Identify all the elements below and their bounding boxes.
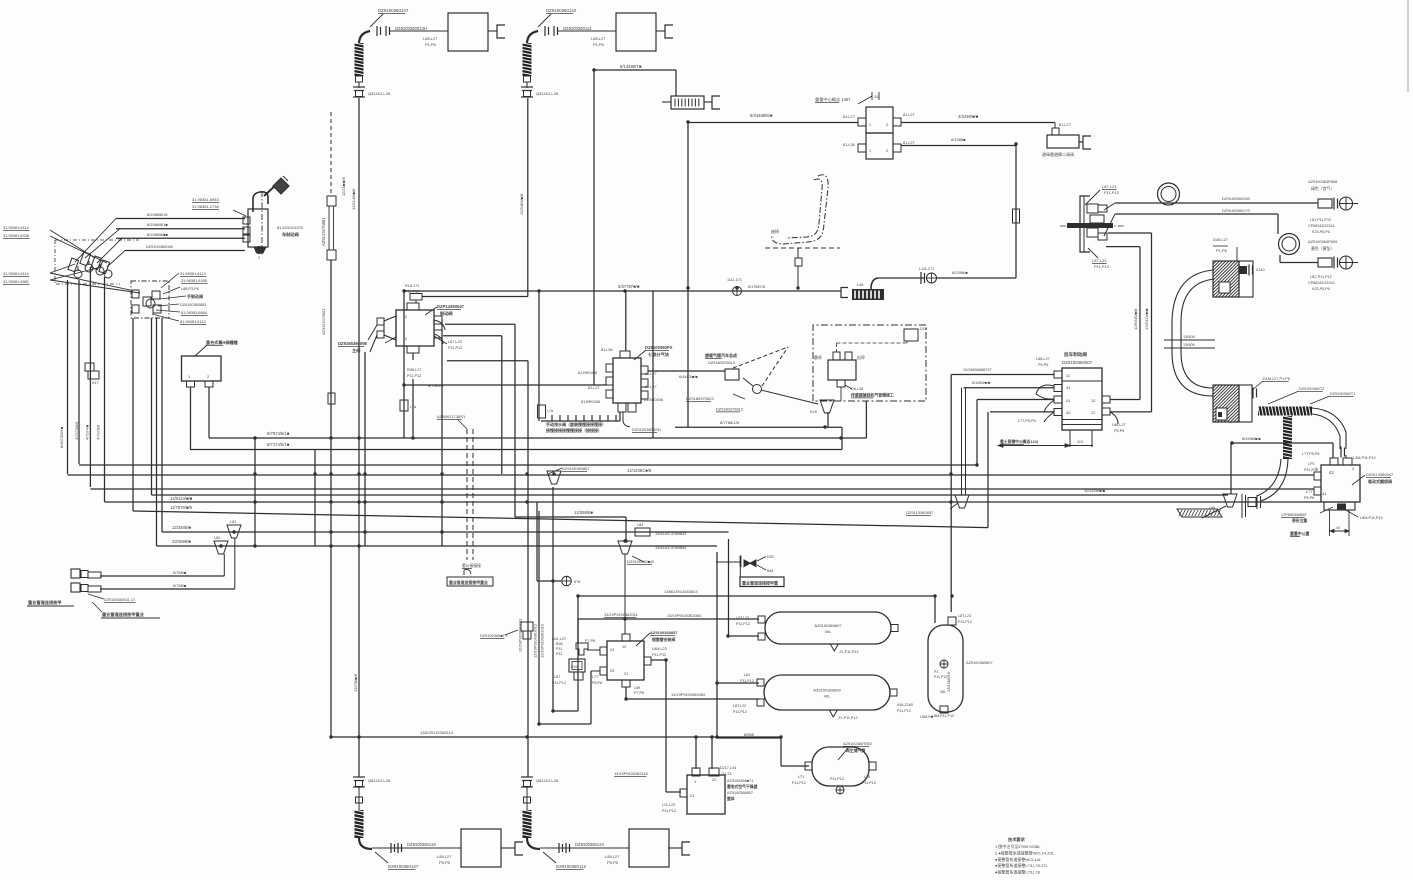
svg-text:40L: 40L (825, 629, 832, 634)
svg-text:81,98383,6884: 81,98383,6884 (181, 310, 208, 315)
svg-text:DZ9100360■TY: DZ9100360■TY (480, 633, 508, 638)
svg-text:23: 23 (610, 668, 614, 673)
svg-text:AZ9100368857: AZ9100368857 (650, 630, 678, 635)
svg-text:26L: 26L (940, 690, 946, 694)
svg-text:感载气爆汽车总成: 感载气爆汽车总成 (705, 352, 737, 358)
svg-text:DZ9100360112: DZ9100360112 (556, 864, 587, 869)
svg-text:L87: L87 (554, 675, 560, 679)
svg-text:4/7378/8: 4/7378/8 (96, 425, 101, 440)
svg-text:2: 2 (405, 315, 407, 319)
svg-text:13/BDZ914343813: 13/BDZ914343813 (664, 589, 698, 594)
svg-text:L8C,P11,P12: L8C,P11,P12 (1310, 275, 1332, 279)
svg-text:Z1,Z1: Z1,Z1 (722, 772, 732, 776)
svg-text:DZ9180370813: DZ9180370813 (716, 407, 743, 412)
svg-text:制动阀: 制动阀 (440, 310, 453, 317)
svg-text:Z140: Z140 (1256, 268, 1265, 272)
svg-text:81,BR0408: 81,BR0408 (578, 371, 597, 375)
svg-text:L7a: L7a (410, 405, 416, 409)
svg-text:重公接接接: 重公接接接 (462, 563, 481, 568)
svg-text:31,98381,6113: 31,98381,6113 (180, 271, 206, 276)
svg-text:CP88342GZ244: CP88342GZ244 (1308, 224, 1335, 228)
svg-text:P7,P8: P7,P8 (634, 691, 644, 695)
svg-text:D1M,L27,P1,P6: D1M,L27,P1,P6 (1263, 377, 1290, 381)
svg-text:俄雷雷安装阀: 俄雷雷安装阀 (651, 637, 675, 642)
svg-text:31,98381,6983: 31,98381,6983 (192, 197, 219, 202)
svg-text:旁形注重: 旁形注重 (1291, 518, 1307, 523)
svg-text:P5,P6: P5,P6 (592, 681, 602, 685)
svg-text:再生储气筒: 再生储气筒 (846, 748, 866, 753)
svg-text:L87,L23: L87,L23 (1102, 184, 1117, 189)
svg-text:12/19P9100362011: 12/19P9100362011 (518, 618, 523, 652)
svg-text:22: 22 (712, 777, 717, 782)
svg-text:L8T,L23: L8T,L23 (736, 616, 749, 620)
svg-text:●接整管系道接整WCL14L: ●接整管系道接整WCL14L (995, 856, 1042, 862)
svg-text:Q81412,L28: Q81412,L28 (368, 778, 391, 783)
svg-text:11/8123/■/■: 11/8123/■/■ (170, 496, 193, 501)
svg-text:AZ9100368■T1: AZ9100368■T1 (727, 779, 753, 783)
svg-text:AZ9100364P609: AZ9100364P609 (1308, 239, 1337, 244)
svg-text:12/6345/■/8: 12/6345/■/8 (1133, 308, 1138, 330)
svg-text:DZ9113360047: DZ9113360047 (1366, 472, 1394, 477)
svg-text:P11,P12: P11,P12 (1104, 190, 1120, 195)
svg-text:重合式幕H阀幢幢: 重合式幕H阀幢幢 (206, 339, 239, 345)
svg-text:重业管道连接按甲重: 重业管道连接按甲重 (742, 580, 778, 586)
svg-text:DZ9180370613: DZ9180370613 (708, 360, 735, 365)
svg-text:座椅: 座椅 (771, 228, 779, 234)
svg-text:P11,P12: P11,P12 (652, 653, 666, 657)
svg-text:DZ9100360158: DZ9100360158 (1222, 196, 1250, 201)
svg-text:AZ9123470881: AZ9123470881 (321, 308, 326, 335)
svg-text:D18: D18 (920, 327, 927, 331)
svg-text:L8M,L23: L8M,L23 (652, 647, 667, 651)
svg-text:1: 1 (869, 123, 871, 127)
svg-text:21: 21 (690, 793, 695, 798)
svg-text:P1,P6: P1,P6 (593, 42, 605, 47)
svg-text:●接整管系道接整L73,L78: ●接整管系道接整L73,L78 (995, 869, 1041, 875)
svg-text:P1: P1 (934, 670, 938, 674)
svg-text:41: 41 (1066, 398, 1071, 403)
svg-text:重土管撞中公概志123(: 重土管撞中公概志123( (1000, 439, 1039, 444)
svg-text:31,98381,6345: 31,98381,6345 (181, 278, 207, 283)
svg-text:2: 2 (886, 123, 888, 127)
svg-text:13/19P9100362118: 13/19P9100362118 (614, 771, 648, 776)
svg-text:12/1689668874T: 12/1689668874T (963, 368, 992, 372)
svg-text:DZ9100360■/8: DZ9100360■/8 (627, 559, 654, 564)
svg-text:重业管道连接按甲重业: 重业管道连接按甲重业 (102, 611, 145, 618)
svg-text:DZ9100360179: DZ9100360179 (1222, 208, 1250, 213)
svg-text:L46: L46 (857, 283, 863, 287)
svg-text:DZ9100360124: DZ9100360124 (575, 842, 605, 847)
svg-text:DZ9100360147: DZ9100360147 (378, 8, 409, 13)
svg-text:黄色（黄坠）: 黄色（黄坠） (1311, 246, 1334, 251)
svg-text:31,98381,6114: 31,98381,6114 (3, 271, 30, 276)
svg-text:P11,P12: P11,P12 (830, 777, 844, 781)
svg-text:DZ91003603SH: DZ91003603SH (632, 427, 661, 432)
svg-text:桑停: 桑停 (814, 355, 822, 360)
svg-text:DZ9165360098: DZ9165360098 (338, 341, 368, 346)
svg-text:P11,P12: P11,P12 (862, 781, 876, 785)
svg-text:D217,L44: D217,L44 (720, 766, 736, 770)
svg-text:AZ9100364P608: AZ9100364P608 (1308, 179, 1337, 184)
svg-text:DZ9100360PX: DZ9100360PX (645, 345, 673, 350)
svg-text:K17: K17 (92, 381, 99, 385)
svg-text:DZ9100360134: DZ9100360134 (407, 842, 437, 847)
svg-text:6/788/■: 6/788/■ (173, 583, 187, 588)
svg-text:P11,P12: P11,P12 (733, 710, 747, 714)
svg-text:P7,P8: P7,P8 (585, 639, 595, 643)
svg-text:31,98381,6338: 31,98381,6338 (3, 233, 29, 238)
svg-text:1: 1 (869, 149, 871, 153)
svg-text:K84,Z160: K84,Z160 (897, 703, 913, 707)
svg-text:P11,P12: P11,P12 (662, 809, 676, 813)
svg-text:D19: D19 (571, 665, 577, 669)
svg-text:L88,L27: L88,L27 (605, 854, 620, 859)
svg-text:绿色（宫气）: 绿色（宫气） (1311, 186, 1334, 191)
svg-text:42: 42 (1066, 410, 1071, 415)
svg-text:L89: L89 (634, 686, 640, 690)
svg-text:重业管道连接按甲重业: 重业管道连接按甲重业 (449, 580, 488, 585)
svg-text:L7T,P5,P6: L7T,P5,P6 (1302, 452, 1320, 456)
svg-text:21: 21 (624, 671, 628, 676)
svg-text:L3M,P11,P12: L3M,P11,P12 (1353, 456, 1376, 460)
svg-text:Q81412,L28: Q81412,L28 (536, 91, 559, 96)
svg-text:6/2398/■: 6/2398/■ (952, 270, 968, 275)
svg-text:P11,P12: P11,P12 (792, 781, 806, 785)
svg-text:13/DZ9110362014: 13/DZ9110362014 (420, 730, 454, 735)
svg-text:12/3488/■: 12/3488/■ (172, 525, 191, 530)
svg-text:40L: 40L (824, 694, 831, 699)
svg-text:17P88035888T: 17P88035888T (1281, 513, 1308, 517)
svg-text:L88,L27: L88,L27 (1112, 423, 1126, 427)
svg-text:L81: L81 (744, 673, 750, 677)
svg-text:整体: 整体 (726, 796, 735, 801)
svg-text:41: 41 (1322, 491, 1327, 496)
svg-text:L81: L81 (230, 520, 236, 524)
svg-text:DZ9113360857: DZ9113360857 (906, 510, 934, 515)
svg-text:8/1988/8/■■: 8/1988/8/■■ (147, 232, 169, 237)
svg-text:P11,P12: P11,P12 (552, 681, 566, 685)
svg-text:81,L27: 81,L27 (843, 115, 855, 119)
svg-text:L77,P5,P6: L77,P5,P6 (1018, 419, 1036, 423)
svg-text:13/19P9100362084: 13/19P9100362084 (671, 692, 706, 697)
svg-text:DZ9100360007: DZ9100360007 (1062, 360, 1093, 365)
svg-text:P11,P12: P11,P12 (740, 679, 754, 683)
svg-text:L88,L27: L88,L27 (437, 854, 452, 859)
svg-text:6/34488/8/■: 6/34488/8/■ (750, 113, 773, 118)
svg-text:DZ9100360857: DZ9100360857 (562, 466, 590, 471)
svg-text:D48,L27: D48,L27 (1213, 237, 1229, 242)
svg-text:43/2988/■: 43/2988/■ (172, 539, 191, 544)
svg-text:传感器输钱机气管慢接工: 传感器输钱机气管慢接工 (850, 393, 894, 398)
svg-text:DZ9100360883: DZ9100360883 (180, 303, 206, 307)
svg-text:L88,L27: L88,L27 (591, 36, 606, 41)
svg-text:L88,P3,P6: L88,P3,P6 (181, 287, 199, 291)
svg-text:L8M,P■: L8M,P■ (920, 715, 933, 719)
svg-text:Q81412,L28: Q81412,L28 (368, 91, 391, 96)
svg-text:差动式翻袋阀: 差动式翻袋阀 (1368, 478, 1392, 484)
svg-text:P11,P12: P11,P12 (1304, 468, 1318, 472)
svg-text:避阀悬避障二阀阀: 避阀悬避障二阀阀 (1042, 151, 1074, 157)
svg-text:K23,P5,P6: K23,P5,P6 (1312, 287, 1330, 291)
svg-text:Z1,P11,P12: Z1,P11,P12 (838, 716, 857, 720)
svg-text:L7a: L7a (547, 409, 553, 413)
svg-text:2: 2 (886, 149, 888, 153)
svg-text:LP1: LP1 (1308, 462, 1315, 466)
svg-text:P5,P6: P5,P6 (1304, 496, 1314, 500)
svg-text:P11,P12: P11,P12 (934, 675, 947, 679)
svg-text:L88,L27: L88,L27 (423, 36, 438, 41)
svg-text:2: 2 (258, 256, 260, 260)
svg-text:P11,P12: P11,P12 (958, 620, 972, 624)
svg-text:R38,L27: R38,L27 (407, 368, 421, 372)
svg-text:手制动阀: 手制动阀 (187, 293, 203, 299)
svg-text:P11,P12: P11,P12 (897, 709, 911, 713)
svg-text:31,98381,2738: 31,98381,2738 (192, 204, 219, 209)
svg-text:81,98381,6113: 81,98381,6113 (180, 319, 206, 324)
svg-text:31,98381,6881: 31,98381,6881 (3, 279, 29, 284)
svg-text:L77: L77 (1306, 490, 1312, 494)
svg-text:D63: D63 (767, 555, 774, 559)
svg-text:AZ9100369807: AZ9100369807 (966, 660, 993, 665)
svg-text:1,图中注号见ZTB9 9238L: 1,图中注号见ZTB9 9238L (995, 843, 1041, 849)
svg-text:12/2986/■: 12/2986/■ (574, 510, 593, 515)
svg-text:L88,L27: L88,L27 (1036, 357, 1050, 361)
svg-text:31,98381,6114: 31,98381,6114 (3, 225, 30, 230)
svg-text:P12: P12 (556, 652, 563, 656)
svg-text:81,L27: 81,L27 (645, 372, 657, 376)
svg-text:K18: K18 (810, 410, 817, 414)
svg-text:13/19P9100362011: 13/19P9100362011 (604, 612, 638, 617)
svg-text:42: 42 (1329, 470, 1334, 475)
svg-text:12/6413/■/■: 12/6413/■/■ (1144, 308, 1149, 330)
svg-text:13/908: 13/908 (1183, 335, 1195, 339)
svg-text:CP88342GZ244: CP88342GZ244 (1308, 281, 1335, 285)
svg-text:81,L56: 81,L56 (601, 348, 613, 352)
svg-text:接慢接接接慢慢接接（接接接）: 接慢接接接慢慢接接（接接接） (546, 427, 602, 433)
svg-text:12: 12 (622, 644, 626, 649)
svg-text:DZ9100360114: DZ9100360114 (563, 26, 592, 31)
svg-text:81,L27: 81,L27 (645, 385, 657, 389)
svg-text:L78: L78 (864, 775, 870, 779)
svg-text:L71: L71 (798, 775, 804, 779)
svg-text:L8M,P11,P12: L8M,P11,P12 (1360, 516, 1383, 520)
svg-text:1: 1 (188, 375, 190, 379)
svg-text:2: 2 (207, 375, 209, 379)
svg-text:重业管道连接按甲: 重业管道连接按甲 (28, 599, 62, 606)
svg-text:2,●接整管系道接整管WCL14,Z3L: 2,●接整管系道接整管WCL14,Z3L (995, 849, 1055, 855)
svg-text:6/37787■/■: 6/37787■/■ (618, 284, 640, 289)
svg-text:8/4973/8/1■: 8/4973/8/1■ (59, 426, 64, 448)
svg-text:P11,P12: P11,P12 (448, 346, 462, 350)
svg-text:挂车制动阀: 挂车制动阀 (1064, 351, 1087, 358)
svg-text:8/1988/8/18: 8/1988/8/18 (147, 212, 168, 217)
svg-text:DZ9100360142: DZ9100360142 (546, 8, 577, 13)
svg-text:P5,P6: P5,P6 (607, 860, 619, 865)
svg-text:L111,171: L111,171 (919, 267, 934, 271)
svg-text:6/7174/5/1■: 6/7174/5/1■ (267, 442, 290, 447)
svg-text:L11,L23: L11,L23 (662, 803, 675, 807)
svg-text:Z1,P11,P12: Z1,P11,P12 (839, 650, 858, 654)
svg-text:AZ9123470881: AZ9123470881 (321, 217, 326, 246)
svg-text:L82: L82 (214, 536, 220, 540)
svg-text:8/1988/■/■: 8/1988/■/■ (1242, 436, 1261, 441)
svg-text:L81,P11,P12: L81,P11,P12 (1310, 218, 1331, 222)
svg-text:AZ9100369807: AZ9100369807 (814, 623, 842, 628)
svg-text:重量中心概念 1487: 重量中心概念 1487 (815, 96, 851, 103)
svg-text:P5,P6: P5,P6 (439, 860, 451, 865)
svg-text:P11: P11 (556, 647, 562, 651)
svg-text:4/7374/■: 4/7374/■ (85, 424, 90, 440)
svg-text:D41,L27: D41,L27 (552, 637, 566, 641)
svg-text:P11,P12: P11,P12 (736, 622, 750, 626)
svg-text:P11,P12: P11,P12 (1094, 264, 1110, 269)
svg-text:P5,P6: P5,P6 (1038, 363, 1048, 367)
svg-text:L84: L84 (637, 523, 643, 527)
svg-text:12/2148/■/8: 12/2148/■/8 (351, 188, 356, 210)
svg-text:6/4483/■/■: 6/4483/■/■ (679, 374, 698, 379)
svg-text:12/1238C■/8: 12/1238C■/8 (627, 468, 652, 473)
svg-text:81,L27: 81,L27 (903, 113, 915, 117)
svg-text:8/7788/1/8: 8/7788/1/8 (720, 420, 740, 425)
svg-text:AZ9B021738S1: AZ9B021738S1 (437, 414, 466, 419)
svg-text:L8M,P11,P12: L8M,P11,P12 (932, 714, 954, 718)
svg-text:D6,L38: D6,L38 (851, 387, 863, 391)
svg-text:113: 113 (1077, 440, 1083, 444)
svg-text:P5,P6: P5,P6 (1114, 429, 1124, 433)
svg-text:81,BR0408: 81,BR0408 (644, 398, 663, 402)
svg-text:DZ9100360/T2: DZ9100360/T2 (1299, 387, 1324, 391)
svg-text:手动排水阀（旋装慢慢接接慢接）: 手动排水阀（旋装慢慢接接慢接） (546, 421, 606, 427)
svg-text:22: 22 (1091, 410, 1096, 415)
svg-text:DZ9100360011,17,: DZ9100360011,17, (104, 598, 136, 602)
svg-text:8/14488/T■: 8/14488/T■ (620, 64, 642, 69)
svg-text:6/788/■: 6/788/■ (173, 570, 187, 575)
svg-text:技术要求: 技术要求 (1008, 836, 1026, 843)
svg-text:13/4143-3788894: 13/4143-3788894 (655, 545, 687, 550)
svg-text:Q81412,L28: Q81412,L28 (536, 778, 559, 783)
svg-text:P11,P12: P11,P12 (407, 374, 421, 378)
svg-text:v3: v3 (1336, 526, 1340, 530)
svg-text:4/3438/■/■: 4/3438/■/■ (958, 114, 979, 119)
svg-text:R18 171: R18 171 (405, 284, 419, 288)
svg-text:L77: L77 (592, 675, 598, 679)
svg-text:DZP14360047: DZP14360047 (437, 304, 465, 309)
svg-text:L8T,L22: L8T,L22 (733, 704, 746, 708)
svg-text:B48: B48 (767, 569, 773, 573)
svg-text:81,L27: 81,L27 (1059, 123, 1071, 127)
svg-text:DZ9100360013H: DZ9100360013H (395, 26, 427, 31)
svg-text:81,L27: 81,L27 (588, 386, 600, 390)
svg-text:6/1988■: 6/1988■ (951, 137, 966, 142)
svg-text:L87,L23: L87,L23 (448, 340, 462, 344)
svg-text:蓄电式空气干燥器: 蓄电式空气干燥器 (727, 784, 758, 789)
svg-text:11/1628/■/■: 11/1628/■/■ (1084, 488, 1106, 493)
svg-text:主阀: 主阀 (352, 347, 360, 354)
svg-text:DZ9180370623: DZ9180370623 (686, 396, 714, 401)
svg-text:AZ9100369899: AZ9100369899 (813, 688, 841, 693)
svg-text:B38: B38 (556, 642, 563, 646)
svg-text:DZ9100360147: DZ9100360147 (388, 864, 419, 869)
svg-text:1111,171: 1111,171 (727, 278, 742, 282)
svg-text:13/19P9100362084: 13/19P9100362084 (667, 613, 702, 618)
svg-text:8/1988/8/1■: 8/1988/8/1■ (147, 222, 168, 227)
svg-text:L87,L23: L87,L23 (1092, 258, 1107, 263)
svg-text:678: 678 (574, 580, 580, 584)
svg-text:81,BR0408: 81,BR0408 (581, 400, 600, 404)
svg-text:6/17887/8: 6/17887/8 (748, 285, 765, 289)
svg-text:L8T,L23: L8T,L23 (958, 614, 971, 618)
svg-text:13/4143-3788833: 13/4143-3788833 (655, 531, 687, 536)
svg-text:81,L38: 81,L38 (843, 143, 855, 147)
svg-text:车制动阀: 车制动阀 (282, 231, 299, 238)
svg-text:12/19P9100362013: 12/19P9100362013 (540, 624, 545, 658)
svg-text:K23,P5,P6: K23,P5,P6 (1312, 230, 1330, 234)
svg-text:DZ9100360049: DZ9100360049 (146, 244, 173, 249)
svg-text:41: 41 (1066, 385, 1071, 390)
svg-text:8/1983/■/■: 8/1983/■/■ (972, 381, 991, 385)
svg-text:AZ9100368T802: AZ9100368T802 (843, 741, 872, 746)
svg-text:P1,P6: P1,P6 (1216, 248, 1228, 253)
svg-text:81,52315,6376: 81,52315,6376 (277, 225, 303, 230)
svg-text:3: 3 (405, 337, 407, 341)
svg-text:12/3483/■/8: 12/3483/■/8 (519, 193, 524, 215)
svg-text:13/7/8/■/8: 13/7/8/■/8 (353, 673, 358, 692)
svg-text:P1,P6: P1,P6 (425, 42, 437, 47)
svg-text:AZ9100368857: AZ9100368857 (727, 791, 753, 795)
svg-text:13/908: 13/908 (1183, 343, 1195, 347)
svg-text:81,L27: 81,L27 (903, 141, 915, 145)
svg-text:松停: 松停 (857, 355, 865, 360)
svg-text:6/7974/5/1■: 6/7974/5/1■ (267, 431, 290, 436)
svg-text:重量中公重: 重量中公重 (1290, 531, 1310, 536)
svg-text:12/21■/■/8: 12/21■/■/8 (341, 177, 346, 196)
svg-text:24: 24 (874, 95, 878, 99)
svg-text:●接整管系道接整L73,L75,Z7L: ●接整管系道接整L73,L75,Z7L (995, 862, 1049, 868)
svg-text:12: 12 (1091, 398, 1096, 403)
svg-text:4/7373/8/8: 4/7373/8/8 (74, 422, 79, 440)
svg-text:11/7878/■/8: 11/7878/■/8 (170, 505, 193, 510)
svg-text:8/988: 8/988 (744, 732, 754, 737)
svg-text:DZ9100360/T1: DZ9100360/T1 (1330, 392, 1355, 396)
svg-text:七联分气块: 七联分气块 (648, 351, 670, 358)
